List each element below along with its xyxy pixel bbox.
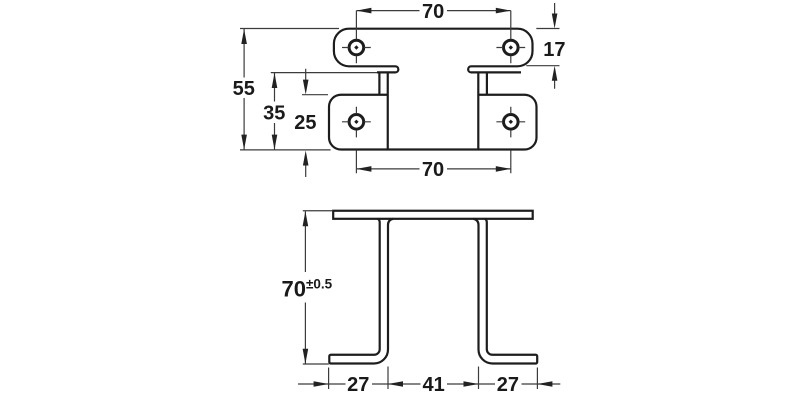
chain extension line foot-right-end — [536, 368, 538, 390]
arrow dim70pm top — [303, 211, 309, 226]
svg-text:35: 35 — [263, 102, 285, 124]
chain extension line left-leg — [387, 367, 389, 390]
profile right leg and foot — [473, 219, 537, 364]
hole top-right — [504, 40, 519, 55]
base plate outline — [329, 95, 537, 150]
dimension 17 arrow shafts — [554, 3, 556, 89]
dimension 70pm line — [304, 211, 306, 364]
left tab inner edge — [387, 72, 389, 149]
right tab inner edge — [477, 72, 479, 149]
dimension 25 arrow shafts — [305, 69, 307, 177]
top flange bar outline with lips — [334, 29, 533, 73]
center dot bottom-left hole — [354, 120, 358, 124]
svg-text:41: 41 — [422, 374, 444, 396]
svg-text:70: 70 — [422, 1, 444, 23]
arrow dim70bot right — [496, 166, 511, 172]
dimension 17 extension lines — [526, 29, 559, 66]
arrow dim17 bottom — [552, 66, 558, 81]
arrow dim70top left — [356, 8, 371, 14]
arrow chain 41 left — [388, 381, 403, 387]
profile left leg and foot — [329, 219, 393, 364]
right tab outer edge — [486, 72, 488, 94]
arrow dim70pm bottom — [303, 349, 309, 364]
centerline top-left hole — [342, 11, 371, 64]
arrow chain 27R outside — [537, 381, 552, 387]
arrow dim17 top — [552, 14, 558, 29]
arrow chain 41 right — [464, 381, 479, 387]
svg-text:17: 17 — [543, 39, 565, 61]
dimension 55/35/25 extension bottom — [240, 149, 331, 151]
profile top plate — [333, 211, 533, 219]
arrow dim25 bottom — [303, 151, 309, 166]
centerline top-right hole — [496, 11, 525, 64]
hole top-left — [349, 40, 364, 55]
dimension 70pm extension top — [303, 210, 333, 212]
center dot top-right hole — [509, 45, 513, 49]
center dot top-left hole — [354, 45, 358, 49]
dimension 25 extension top — [302, 94, 328, 96]
svg-text:70: 70 — [422, 159, 444, 181]
chain dimension line — [298, 383, 560, 385]
dimension 35 line — [274, 73, 276, 150]
centerline bottom-left hole — [342, 107, 371, 174]
centerline bottom-right hole — [496, 107, 525, 174]
arrow dim35 top — [272, 73, 278, 88]
svg-text:70±0.5: 70±0.5 — [282, 276, 333, 301]
center dot bottom-right hole — [509, 120, 513, 124]
chain extension line right-leg — [478, 367, 480, 390]
hole bottom-right — [504, 115, 519, 130]
arrow dim55 top — [241, 29, 247, 44]
dimension 70pm extension bottom — [303, 363, 329, 365]
left tab outer edge — [378, 72, 380, 94]
arrow dim25 top — [303, 80, 309, 95]
arrow dim55 bottom — [241, 135, 247, 150]
dimension 70 bottom line — [356, 168, 510, 170]
dimension 55 line — [243, 29, 245, 150]
chain extension line foot-left-end — [328, 368, 330, 390]
dimension 55 extension top — [240, 28, 339, 30]
dimension 35 extension top — [271, 72, 377, 74]
svg-text:25: 25 — [294, 112, 316, 134]
arrow dim35 bottom — [272, 135, 278, 150]
svg-text:27: 27 — [347, 374, 369, 396]
svg-text:55: 55 — [233, 78, 255, 100]
svg-text:27: 27 — [497, 374, 519, 396]
arrow dim70top right — [496, 8, 511, 14]
dimension 70 top line — [356, 10, 510, 12]
arrow chain 27L outside — [314, 381, 329, 387]
hole bottom-left — [349, 115, 364, 130]
arrow dim70bot left — [356, 166, 371, 172]
